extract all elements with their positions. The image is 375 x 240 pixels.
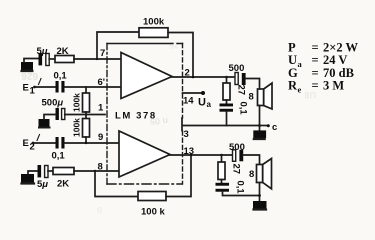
svg-text:5μ: 5μ xyxy=(37,179,48,190)
wire feedback riser xyxy=(97,32,139,59)
svg-text:100k: 100k xyxy=(72,118,82,137)
wire return to speaker ground xyxy=(223,192,260,196)
svg-text:a: a xyxy=(207,100,212,109)
resistor 100k (lower bias) xyxy=(72,118,90,137)
svg-text:100 k: 100 k xyxy=(141,207,165,218)
ground (speaker bottom) xyxy=(253,201,267,210)
capacitor 0,1 (top output) xyxy=(220,100,249,115)
capacitor 500 (bottom output) xyxy=(229,142,245,162)
svg-text:2K: 2K xyxy=(57,179,69,190)
wire xyxy=(49,58,55,60)
svg-text:0,1: 0,1 xyxy=(238,102,249,116)
speaker LS1 (8 ohm) xyxy=(249,83,273,109)
op-amp U1 (top) xyxy=(121,53,172,99)
svg-text:6': 6' xyxy=(98,77,106,88)
capacitor 0,1 (E1) xyxy=(54,70,68,92)
svg-text:8: 8 xyxy=(249,169,254,180)
node bias junction xyxy=(85,112,87,119)
svg-text:14: 14 xyxy=(183,96,194,107)
svg-text:500μ: 500μ xyxy=(42,98,64,109)
wire to speaker xyxy=(243,155,259,165)
spec text block xyxy=(288,41,359,95)
wire xyxy=(35,86,56,88)
wire output pin 13 xyxy=(170,154,233,156)
capacitor 0,1 (bottom output) xyxy=(216,180,246,195)
resistor 2K (top) xyxy=(55,46,74,63)
svg-text:R: R xyxy=(288,79,298,93)
wire to speaker xyxy=(246,79,260,90)
svg-text:0: 0 xyxy=(97,205,102,215)
resistor 27 (top) xyxy=(223,77,247,100)
wire xyxy=(48,170,53,172)
svg-text:E: E xyxy=(23,138,29,149)
wire cap to junction xyxy=(65,114,86,116)
svg-text:8: 8 xyxy=(249,92,254,103)
wire to pin 7 xyxy=(74,58,121,60)
resistor 2K (bottom) xyxy=(53,168,74,190)
svg-text:9: 9 xyxy=(98,132,103,143)
svg-text:25: 25 xyxy=(169,40,179,50)
svg-text:1: 1 xyxy=(98,103,104,114)
wire xyxy=(33,142,56,144)
ground top-left xyxy=(21,59,39,72)
svg-text:c: c xyxy=(272,122,277,133)
svg-text:100k: 100k xyxy=(143,17,165,28)
ghost bleed-through marks xyxy=(21,40,316,215)
wire output pin 2 xyxy=(172,76,235,78)
svg-text:27: 27 xyxy=(231,164,242,175)
pin labels top amp xyxy=(98,48,195,173)
IC box LM378 (dashed) xyxy=(107,44,183,185)
capacitor 500 (top output) xyxy=(229,63,246,85)
svg-text:500: 500 xyxy=(229,142,245,153)
svg-text:0,1: 0,1 xyxy=(52,151,66,162)
ground (speaker top) xyxy=(253,130,266,139)
svg-text:=: = xyxy=(312,79,319,93)
op-amp U2 (bottom) xyxy=(119,131,170,177)
wire feedback drop xyxy=(95,171,138,197)
resistor 100k (upper bias) xyxy=(72,87,90,112)
svg-text:7: 7 xyxy=(100,48,105,59)
capacitor 5u (bottom input) xyxy=(37,165,48,190)
wire pin 1 xyxy=(86,114,105,116)
svg-text:0,1: 0,1 xyxy=(235,181,246,195)
resistor 27 (bottom) xyxy=(218,155,242,180)
speaker LS2 (8 ohm) xyxy=(249,159,272,189)
ground bottom-left xyxy=(21,171,38,184)
svg-text:8: 8 xyxy=(98,162,103,173)
capacitor 500u xyxy=(42,98,65,121)
wire to pin 8 xyxy=(74,170,119,172)
ground (500u) xyxy=(39,115,56,128)
svg-text:100k: 100k xyxy=(72,93,82,112)
wire speaker to bus xyxy=(259,106,261,131)
node junction feedback riser xyxy=(96,58,98,60)
node E2 terminal xyxy=(23,135,40,153)
wire speaker to ground xyxy=(259,183,261,202)
capacitor 0,1 (E2) xyxy=(52,137,66,162)
svg-text:0,1: 0,1 xyxy=(54,70,68,81)
pin 3 wire to ground bus xyxy=(182,118,260,131)
wire feedback to pin 13 node xyxy=(166,155,191,197)
svg-text:LM 378: LM 378 xyxy=(115,110,157,121)
svg-text:e: e xyxy=(298,85,302,95)
node E1 terminal xyxy=(23,79,42,97)
wire to pin 9 xyxy=(65,142,120,144)
node c terminal xyxy=(260,122,278,133)
wire feedback to output node xyxy=(168,33,193,78)
svg-text:3 M: 3 M xyxy=(323,79,344,93)
svg-text:27: 27 xyxy=(236,85,247,96)
resistor 100k (top feedback) xyxy=(139,17,168,38)
svg-text:E: E xyxy=(23,83,29,94)
svg-text:5μ: 5μ xyxy=(37,46,48,57)
capacitor 5u (top input) xyxy=(37,46,50,66)
svg-text:500: 500 xyxy=(229,63,245,74)
svg-text:3: 3 xyxy=(184,129,189,140)
wire to pin 6' xyxy=(65,86,122,88)
wire to bus xyxy=(226,112,228,126)
svg-text:U: U xyxy=(198,97,206,109)
resistor 100k (bottom feedback) xyxy=(138,192,166,218)
svg-text:2K: 2K xyxy=(57,46,69,57)
pin 14 supply stub Ua xyxy=(183,91,212,109)
wire xyxy=(85,137,87,143)
